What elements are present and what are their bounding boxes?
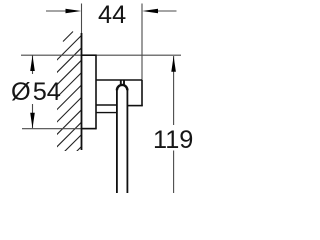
svg-text:Ø54: Ø54 [11, 78, 61, 106]
object lines [81, 33, 143, 193]
bottom extension line y=128.7 [22, 128, 96, 130]
body bottom left lower [96, 112, 117, 114]
body bottom left upper [96, 104, 117, 106]
plate top / bottom (thick overdraw) [81, 54, 97, 56]
plate right edge [95, 55, 97, 130]
svg-text:119: 119 [153, 126, 193, 154]
neck [120, 81, 122, 86]
dia54 dim [32, 55, 34, 74]
body right edge [141, 80, 143, 106]
44 extension left above wall [81, 4, 83, 34]
44 extension right [141, 4, 143, 81]
body bottom right [128, 105, 143, 107]
svg-text:44: 44 [98, 1, 126, 29]
wall face [81, 33, 83, 150]
119 dim [173, 56, 175, 125]
dimension / extension lines [21, 4, 181, 194]
arrowheads [30, 9, 176, 129]
dimension texts [11, 1, 193, 154]
44 dim tails [46, 10, 70, 12]
rod sides [116, 90, 118, 194]
wall hatching [56, 32, 82, 159]
rod dome [117, 85, 128, 90]
top extension line y=55 [21, 54, 181, 56]
body top [96, 79, 142, 81]
